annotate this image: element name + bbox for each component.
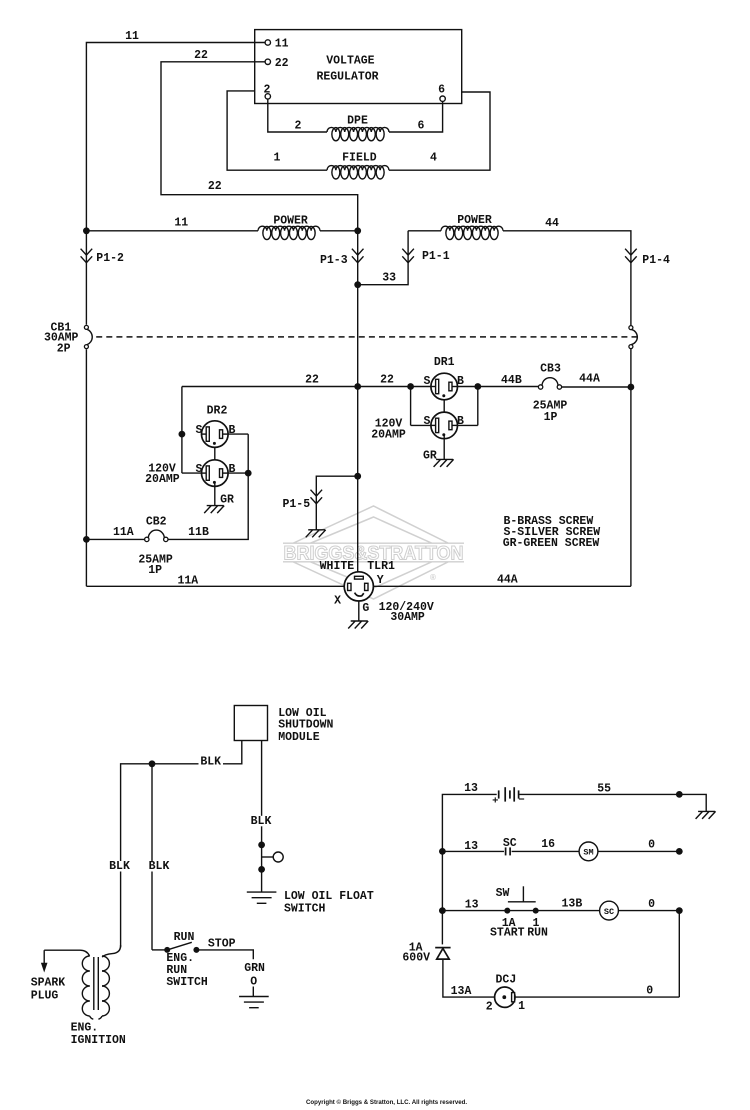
svg-text:DR2: DR2 xyxy=(207,405,228,418)
svg-text:SWITCH: SWITCH xyxy=(284,902,326,915)
svg-text:PLUG: PLUG xyxy=(31,989,59,1002)
svg-text:ENG.: ENG. xyxy=(71,1022,99,1035)
svg-text:FIELD: FIELD xyxy=(342,152,377,165)
svg-text:GR-GREEN SCREW: GR-GREEN SCREW xyxy=(503,537,600,550)
svg-text:+: + xyxy=(492,796,498,808)
svg-text:MODULE: MODULE xyxy=(278,731,320,744)
svg-text:0: 0 xyxy=(648,898,655,911)
svg-text:BLK: BLK xyxy=(251,815,272,828)
svg-text:DPE: DPE xyxy=(347,114,368,127)
svg-text:0: 0 xyxy=(648,839,655,852)
svg-text:STOP: STOP xyxy=(208,937,236,950)
svg-text:REGULATOR: REGULATOR xyxy=(316,71,378,84)
svg-text:SM: SM xyxy=(583,848,593,858)
svg-text:1: 1 xyxy=(274,152,281,165)
svg-text:B: B xyxy=(457,415,464,428)
svg-text:20AMP: 20AMP xyxy=(145,473,180,486)
svg-text:P1-2: P1-2 xyxy=(96,252,124,265)
svg-text:X: X xyxy=(334,595,341,608)
svg-text:IGNITION: IGNITION xyxy=(71,1034,126,1047)
svg-text:13: 13 xyxy=(464,840,478,853)
svg-text:1: 1 xyxy=(518,1000,525,1013)
svg-text:2: 2 xyxy=(295,120,302,133)
svg-text:44A: 44A xyxy=(497,574,518,587)
svg-text:16: 16 xyxy=(541,838,555,851)
svg-text:BLK: BLK xyxy=(149,860,170,873)
svg-text:O: O xyxy=(250,976,257,989)
svg-text:POWER: POWER xyxy=(457,214,492,227)
svg-text:SW: SW xyxy=(496,887,510,900)
svg-text:CB2: CB2 xyxy=(146,515,167,528)
svg-text:2: 2 xyxy=(264,83,271,96)
svg-text:B: B xyxy=(229,463,236,476)
svg-text:22: 22 xyxy=(380,373,394,386)
svg-text:55: 55 xyxy=(597,783,611,796)
svg-text:GRN: GRN xyxy=(244,962,265,975)
svg-text:WHITE: WHITE xyxy=(320,560,355,573)
svg-text:33: 33 xyxy=(382,271,396,284)
svg-text:®: ® xyxy=(430,573,436,582)
svg-text:4: 4 xyxy=(430,152,437,165)
svg-text:GR: GR xyxy=(220,494,234,507)
svg-text:SC: SC xyxy=(503,837,517,850)
svg-text:B: B xyxy=(457,375,464,388)
svg-text:1P: 1P xyxy=(544,411,558,424)
svg-text:2: 2 xyxy=(486,1001,493,1014)
svg-text:P1-1: P1-1 xyxy=(422,250,450,263)
svg-text:22: 22 xyxy=(275,57,289,70)
svg-text:S: S xyxy=(423,415,430,428)
svg-text:11A: 11A xyxy=(177,575,198,588)
svg-text:LOW OIL FLOAT: LOW OIL FLOAT xyxy=(284,890,374,903)
svg-text:22: 22 xyxy=(194,49,208,62)
svg-text:SWITCH: SWITCH xyxy=(166,976,208,989)
svg-text:START: START xyxy=(490,926,525,939)
svg-text:44B: 44B xyxy=(501,374,522,387)
svg-text:1P: 1P xyxy=(148,564,162,577)
svg-text:DR1: DR1 xyxy=(434,356,455,369)
svg-text:RUN: RUN xyxy=(527,926,548,939)
svg-text:13B: 13B xyxy=(562,897,583,910)
svg-text:TLR1: TLR1 xyxy=(367,560,395,573)
svg-text:BLK: BLK xyxy=(200,756,221,769)
svg-text:Y: Y xyxy=(377,574,384,587)
svg-text:11: 11 xyxy=(275,38,289,51)
svg-text:DCJ: DCJ xyxy=(496,973,517,986)
svg-text:22: 22 xyxy=(208,180,222,193)
svg-text:P1-5: P1-5 xyxy=(282,498,310,511)
svg-text:13: 13 xyxy=(464,782,478,795)
svg-text:13: 13 xyxy=(465,898,479,911)
svg-text:S: S xyxy=(196,463,203,476)
svg-text:0: 0 xyxy=(646,985,653,998)
svg-text:G: G xyxy=(362,602,369,615)
svg-text:11: 11 xyxy=(125,30,139,43)
svg-text:30AMP: 30AMP xyxy=(390,611,425,624)
svg-text:SPARK: SPARK xyxy=(31,976,66,989)
svg-text:B: B xyxy=(229,424,236,437)
svg-text:POWER: POWER xyxy=(273,215,308,228)
svg-text:P1-4: P1-4 xyxy=(642,254,670,267)
svg-text:SHUTDOWN: SHUTDOWN xyxy=(278,719,333,732)
svg-text:BLK: BLK xyxy=(109,860,130,873)
svg-text:6: 6 xyxy=(418,120,425,133)
svg-text:S: S xyxy=(196,424,203,437)
svg-text:20AMP: 20AMP xyxy=(371,429,406,442)
svg-text:S: S xyxy=(423,375,430,388)
svg-text:44: 44 xyxy=(545,217,559,230)
svg-text:RUN: RUN xyxy=(174,931,195,944)
svg-text:6: 6 xyxy=(438,84,445,97)
svg-text:CB3: CB3 xyxy=(540,363,561,376)
svg-text:13A: 13A xyxy=(451,985,472,998)
svg-text:VOLTAGE: VOLTAGE xyxy=(326,54,374,67)
svg-text:600V: 600V xyxy=(402,952,430,965)
svg-text:P1-3: P1-3 xyxy=(320,254,348,267)
svg-text:11: 11 xyxy=(174,217,188,230)
svg-text:11B: 11B xyxy=(188,526,209,539)
svg-text:−: − xyxy=(518,795,524,807)
svg-text:2P: 2P xyxy=(57,342,71,355)
svg-text:44A: 44A xyxy=(579,373,600,386)
svg-text:GR: GR xyxy=(423,449,437,462)
svg-text:11A: 11A xyxy=(113,526,134,539)
svg-text:22: 22 xyxy=(305,373,319,386)
svg-text:SC: SC xyxy=(604,907,614,917)
